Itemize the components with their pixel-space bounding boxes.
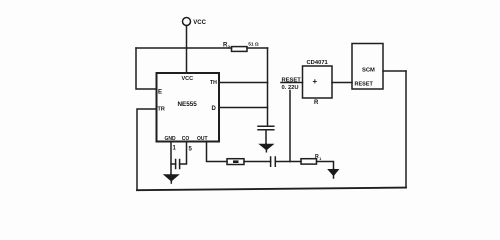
- wire CO pin stem: [180, 142, 187, 165]
- wire C3 to R4: [275, 161, 301, 163]
- svg-text:RESET: RESET: [355, 81, 374, 87]
- wire VCC stem: [186, 26, 188, 74]
- node RESET labels: [281, 77, 301, 91]
- resistor R2: [223, 42, 259, 52]
- capacitor C2: [258, 126, 274, 130]
- wire R4 to ground: [317, 162, 334, 170]
- svg-text:TH: TH: [210, 80, 217, 86]
- svg-text:CO: CO: [182, 136, 190, 142]
- wire SCM output: [383, 70, 406, 72]
- svg-text:1: 1: [319, 157, 321, 161]
- svg-text:E: E: [158, 90, 162, 96]
- wire right column: [267, 48, 269, 126]
- svg-text:NE555: NE555: [178, 101, 198, 108]
- ground below GND pin: [163, 174, 180, 183]
- svg-text:D: D: [212, 106, 217, 112]
- wire R3 to C3: [244, 161, 271, 163]
- resistor R4: [301, 154, 321, 164]
- wire bottom rail: [137, 188, 406, 191]
- wire right rail: [405, 71, 407, 188]
- wire C2 to ground: [265, 130, 267, 144]
- svg-text:0. 22U: 0. 22U: [282, 85, 299, 91]
- svg-text:SCM: SCM: [362, 68, 375, 74]
- svg-text:TR: TR: [158, 107, 165, 113]
- wire RESET node to U2: [281, 82, 303, 84]
- op-amp U1 NE555: [157, 73, 220, 142]
- svg-text:51 Ω: 51 Ω: [248, 42, 259, 48]
- svg-text:VCC: VCC: [193, 20, 206, 26]
- block U3 SCM: [352, 44, 383, 90]
- wire U2 to U3: [332, 82, 352, 84]
- svg-text:+: +: [313, 77, 318, 86]
- wire OUT pin stem: [207, 142, 228, 162]
- ground below C2: [258, 144, 274, 152]
- capacitor C1: [171, 160, 180, 169]
- svg-text:CD4071: CD4071: [307, 60, 329, 66]
- svg-text:VCC: VCC: [182, 76, 194, 82]
- wire top rail: [136, 47, 268, 49]
- VCC terminal: [183, 18, 207, 26]
- svg-text:R: R: [314, 100, 319, 106]
- wire GND pin stem: [170, 142, 172, 175]
- wire TH line: [219, 82, 268, 84]
- wire TR branch: [137, 109, 157, 190]
- resistor R3: [227, 159, 244, 165]
- wire D line: [219, 107, 268, 109]
- capacitor C3 0.22u: [271, 157, 276, 166]
- wire E branch: [136, 48, 157, 89]
- gate U2 CD4071: [303, 60, 333, 106]
- ground right of R4: [327, 169, 339, 178]
- node RESET junction riser: [289, 83, 291, 162]
